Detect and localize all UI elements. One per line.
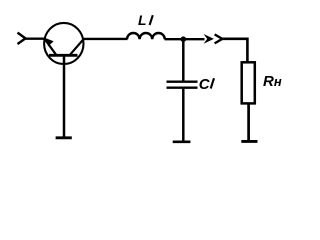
- svg-text:C: C: [199, 76, 211, 93]
- svg-text:L: L: [138, 12, 147, 28]
- svg-text:Rн: Rн: [263, 73, 282, 90]
